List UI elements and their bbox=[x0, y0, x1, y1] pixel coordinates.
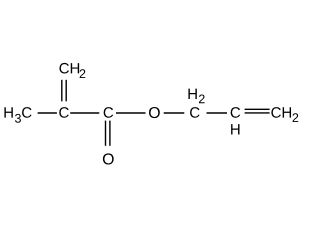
atom C3 (allylic CH2; H2 written above) bbox=[188, 89, 204, 118]
atom C4 (vinyl CH; H written below) bbox=[231, 107, 240, 134]
double bond C4=CH2 (horizontal) bbox=[245, 109, 270, 113]
double bond C1=O (vertical) bbox=[106, 121, 110, 146]
atom CH2 (terminal methylene) bbox=[271, 107, 298, 122]
double bond C2=CH2 (vertical) bbox=[62, 80, 66, 102]
bond C2-C1 bbox=[70, 112, 99, 114]
bond C3-C4 bbox=[207, 112, 228, 114]
atom CH2 (methylene, top) bbox=[59, 63, 85, 78]
bond O-C3 bbox=[164, 112, 185, 114]
atom C2 (methacrylate carbon) bbox=[59, 107, 68, 118]
atom H3C (methyl group) bbox=[4, 107, 31, 123]
atom O (carbonyl oxygen) bbox=[103, 153, 114, 164]
bond H3C-C2 bbox=[38, 112, 57, 114]
bond C1-O(ester) bbox=[116, 112, 146, 114]
atom O (ester oxygen) bbox=[149, 107, 160, 118]
atom C1 (carbonyl carbon) bbox=[104, 107, 113, 118]
